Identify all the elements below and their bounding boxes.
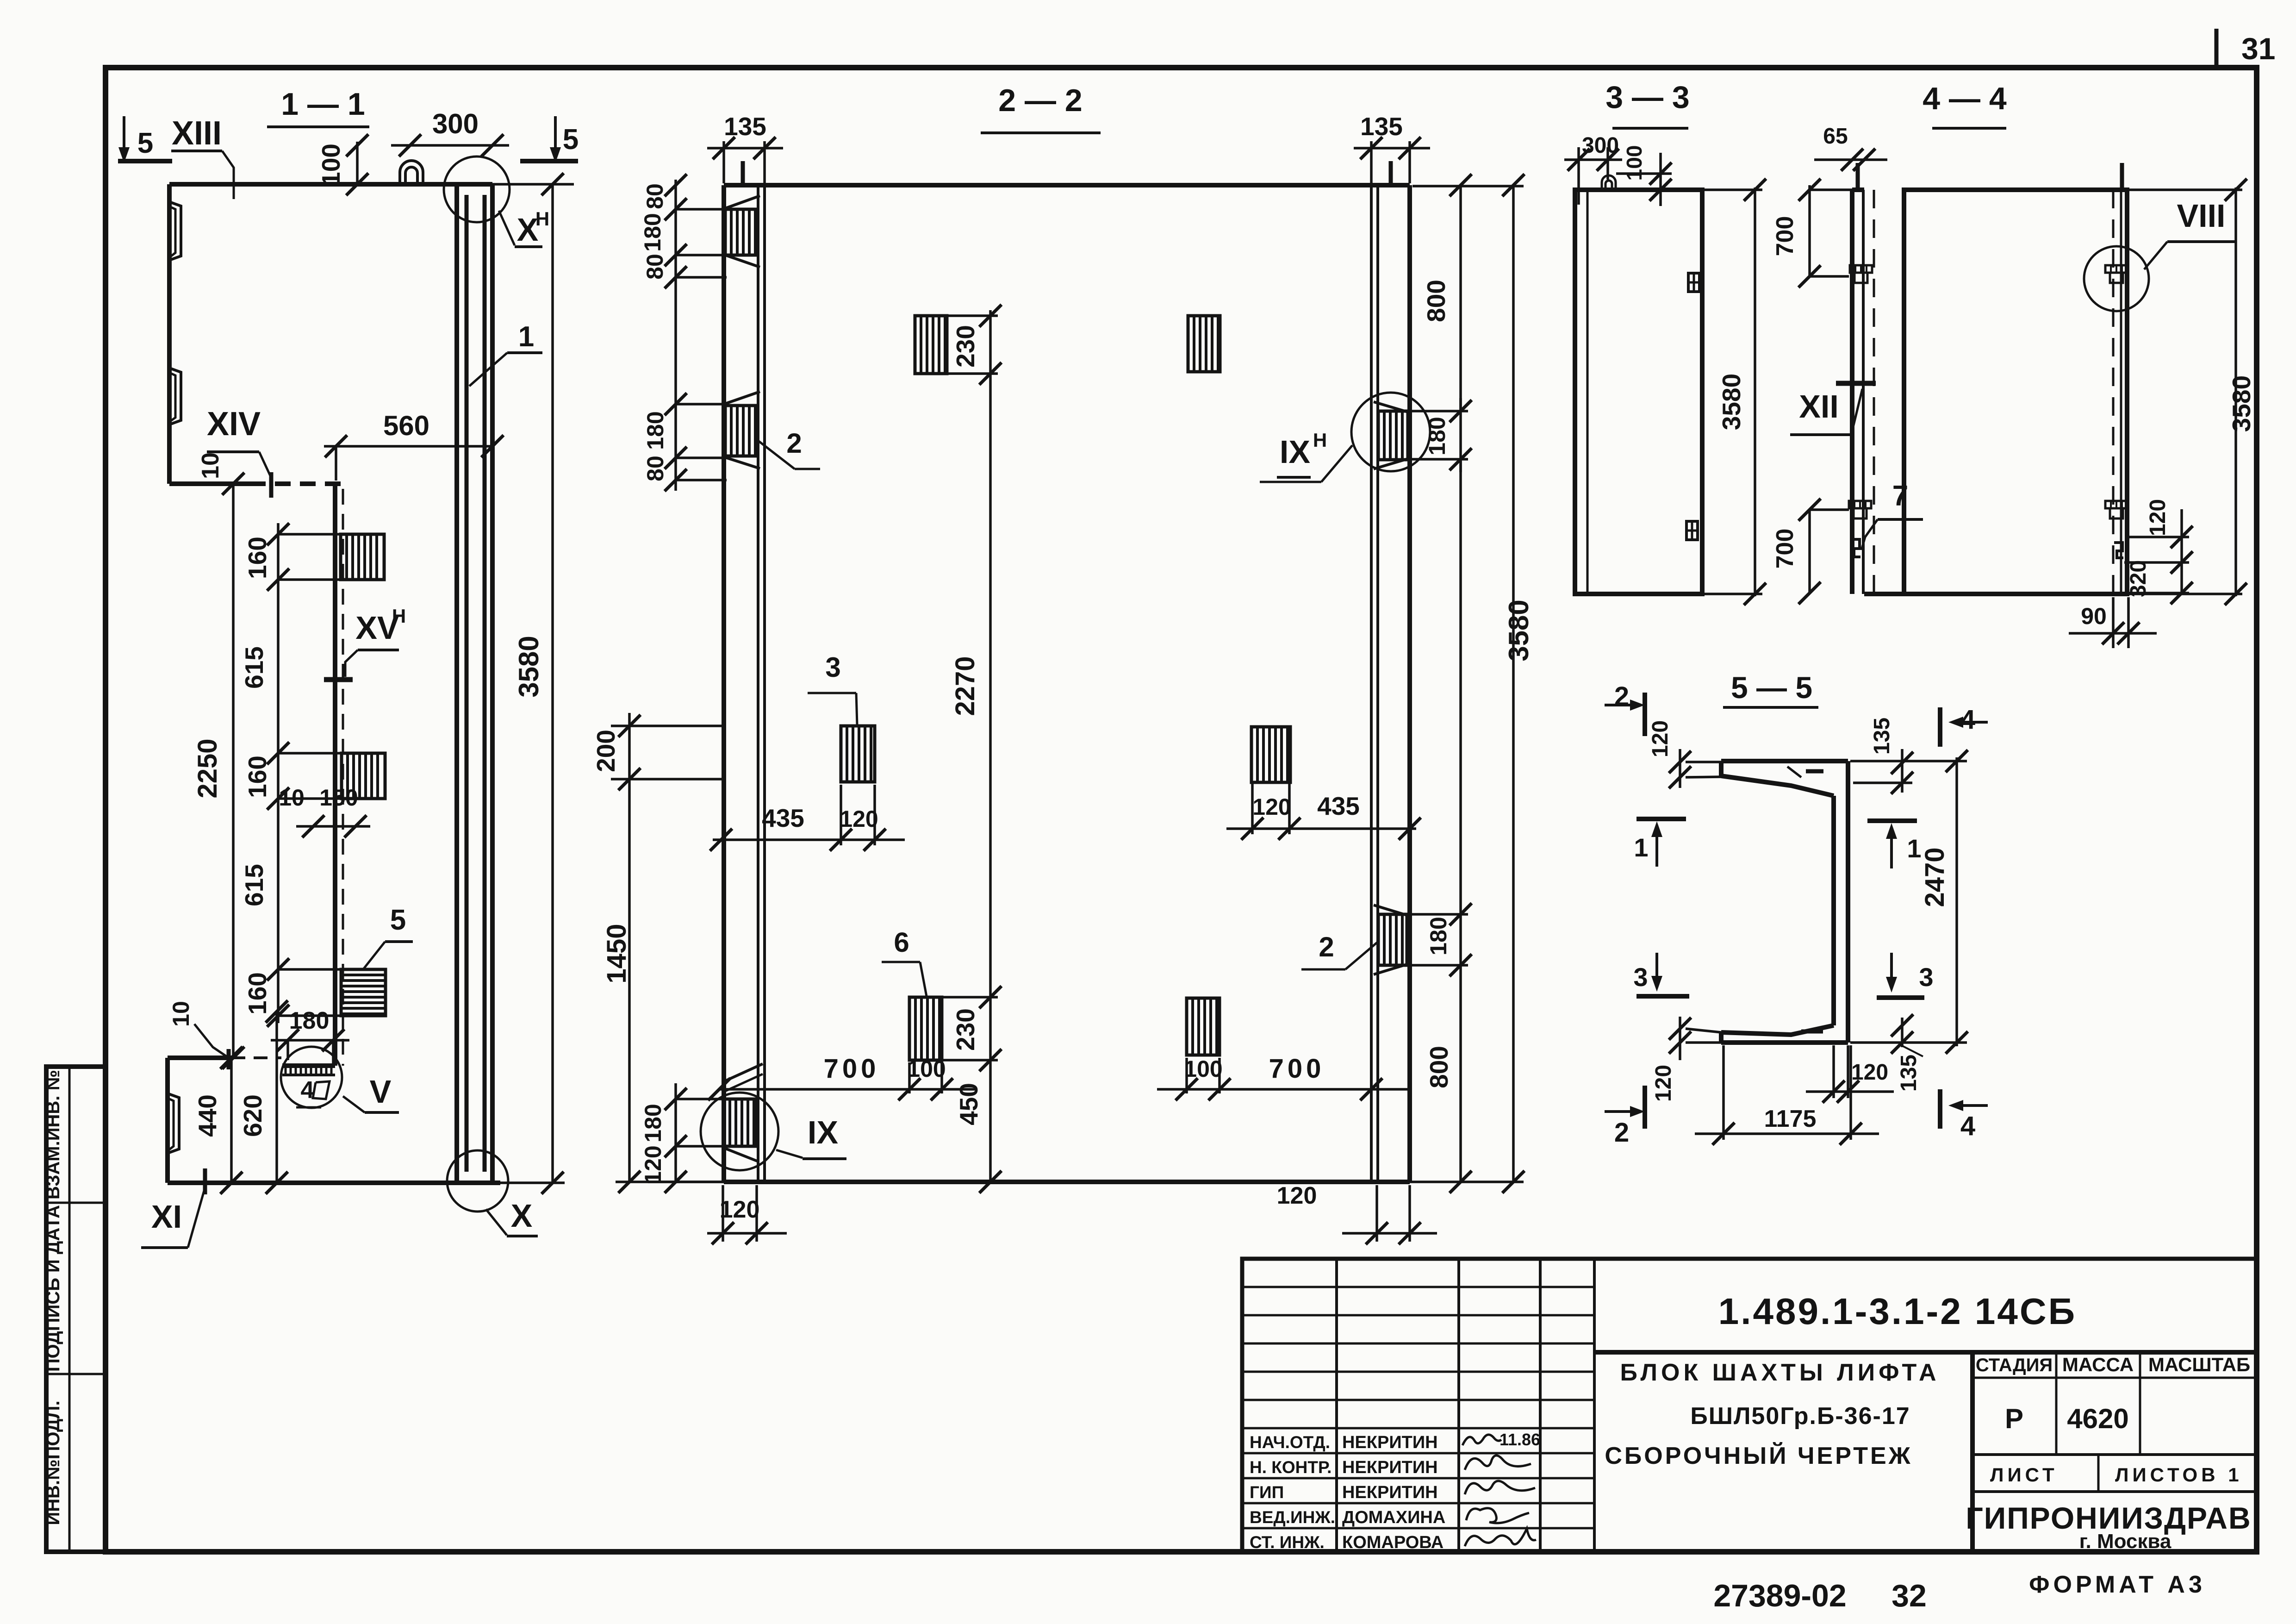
wedge above R2: [1374, 905, 1407, 915]
svg-text:120: 120: [1277, 1182, 1317, 1209]
section marker 1 right: [1867, 818, 1917, 823]
signature ved inzh: [1466, 1508, 1529, 1523]
narrow rib dashed axis: [1873, 190, 1875, 594]
svg-text:100: 100: [1622, 145, 1646, 181]
center chain dim line: [989, 310, 992, 1182]
svg-text:НЕКРИТИН: НЕКРИТИН: [1342, 1433, 1438, 1452]
svg-text:180: 180: [1425, 917, 1451, 955]
svg-text:120: 120: [640, 1145, 666, 1184]
dimension 800 bottom right: [1459, 965, 1462, 1182]
anchor block L1: [725, 209, 758, 255]
svg-text:135: 135: [724, 112, 766, 141]
dimension 3580 section 1-1: [551, 184, 554, 1183]
left stamp column box: [46, 1067, 106, 1552]
key block upper 1-1: [341, 534, 384, 580]
svg-text:Н: Н: [1313, 429, 1327, 451]
svg-text:65: 65: [1823, 124, 1848, 149]
narrow rib top cap: [1852, 187, 1864, 192]
svg-text:135: 135: [1870, 718, 1894, 755]
detail circle IX-n: [1351, 393, 1430, 471]
svg-text:560: 560: [383, 410, 429, 441]
svg-text:МАССА: МАССА: [2062, 1354, 2134, 1375]
section marker 1 left: [1636, 817, 1686, 821]
svg-text:БШЛ50Гр.Б-36-17: БШЛ50Гр.Б-36-17: [1690, 1403, 1910, 1430]
svg-text:Р: Р: [2005, 1403, 2023, 1434]
dimension 2250: [232, 484, 235, 1058]
dimension 435 120 left: [713, 838, 905, 841]
wall face vertical 1-1: [333, 484, 337, 1066]
dimension 100 top: [356, 142, 359, 184]
svg-text:ГИП: ГИП: [1250, 1483, 1284, 1502]
svg-text:Н: Н: [392, 605, 406, 627]
svg-text:32: 32: [1892, 1578, 1927, 1613]
title block doc number cell divider: [1594, 1350, 2257, 1355]
svg-text:300: 300: [432, 108, 479, 139]
detail circle VIII: [2084, 246, 2149, 311]
wedge above R1: [1374, 402, 1408, 412]
title block grid: [1242, 1259, 2257, 1552]
dimension 560: [324, 445, 492, 448]
svg-text:г. Москва: г. Москва: [2079, 1530, 2172, 1553]
svg-text:620: 620: [238, 1094, 267, 1137]
svg-text:Н. КОНТР.: Н. КОНТР.: [1250, 1458, 1332, 1477]
left stamp divider row 1: [46, 1202, 106, 1204]
svg-text:XI: XI: [151, 1199, 182, 1235]
ext lines left top chain: [676, 208, 727, 211]
svg-text:120: 120: [1252, 794, 1291, 820]
svg-text:МАСШТАБ: МАСШТАБ: [2148, 1354, 2250, 1375]
channel web inner face: [1831, 796, 1836, 1025]
svg-text:150: 150: [319, 785, 358, 811]
sheet number tick top right: [2215, 29, 2219, 69]
svg-text:СТ. ИНЖ.: СТ. ИНЖ.: [1250, 1533, 1325, 1552]
svg-text:2: 2: [786, 428, 802, 459]
narrow rib left face: [1850, 190, 1854, 594]
rebar stub 4-4 right: [2120, 163, 2124, 190]
svg-text:320: 320: [2126, 560, 2151, 597]
svg-text:10: 10: [197, 452, 224, 479]
mark dash bottom flange: [1801, 1030, 1823, 1034]
svg-text:180: 180: [640, 213, 666, 251]
channel top flange tip: [1719, 761, 1724, 776]
detail circle X bottom: [447, 1150, 508, 1212]
section 2-2 top edge: [724, 183, 1410, 187]
groove notch lower: [169, 368, 181, 425]
svg-text:800: 800: [1425, 1046, 1453, 1088]
section 2-2 bottom edge: [724, 1180, 1410, 1184]
bottom element left edge: [165, 1058, 170, 1183]
title block name column divider: [1970, 1352, 1975, 1552]
channel top flange top face: [1721, 759, 1848, 763]
svg-text:ВЕД.ИНЖ.: ВЕД.ИНЖ.: [1250, 1508, 1335, 1527]
channel bottom flange bottom face: [1721, 1040, 1848, 1045]
svg-text:435: 435: [1317, 792, 1360, 820]
dimension 100 700 right: [1157, 1088, 1410, 1091]
narrow rib right face: [1862, 190, 1865, 594]
svg-text:XIII: XIII: [172, 115, 222, 152]
chain dimension line 160-615: [277, 523, 280, 1023]
svg-text:БЛОК ШАХТЫ ЛИФТА: БЛОК ШАХТЫ ЛИФТА: [1620, 1359, 1940, 1386]
svg-text:160: 160: [243, 537, 272, 579]
groove notch upper: [169, 202, 181, 260]
svg-text:3580: 3580: [513, 636, 544, 697]
ext lines center chain: [947, 314, 998, 317]
signature n kontr: [1465, 1455, 1531, 1470]
svg-text:180: 180: [289, 1007, 330, 1034]
node 1-1 wall top edge: [169, 182, 492, 187]
svg-text:700: 700: [1772, 529, 1798, 569]
svg-text:120: 120: [1648, 720, 1673, 757]
svg-text:100: 100: [1184, 1056, 1222, 1082]
key block M5: [1187, 998, 1220, 1055]
wedge below L1: [725, 255, 760, 267]
clamp A 3-3: [1688, 273, 1699, 292]
svg-text:XII: XII: [1799, 388, 1839, 425]
svg-text:120: 120: [2146, 499, 2170, 536]
svg-text:615: 615: [240, 864, 268, 906]
dimension 120 320 right 4-4: [2180, 509, 2183, 593]
mark diagonal top flange: [1787, 767, 1801, 777]
dimension 3580 3-3: [1754, 187, 1756, 596]
rebar stub 4-4 left: [1856, 163, 1860, 190]
svg-text:4 — 4: 4 — 4: [1923, 81, 2007, 116]
groove notch bottom element: [168, 1093, 179, 1153]
svg-text:1: 1: [518, 321, 534, 353]
svg-text:V: V: [370, 1074, 392, 1110]
svg-text:80: 80: [642, 456, 668, 481]
node 1-1 flange bottom edge: [169, 481, 250, 486]
svg-text:230: 230: [951, 1008, 980, 1051]
svg-text:1: 1: [1634, 833, 1648, 862]
clamp VIII: [2105, 265, 2128, 273]
svg-text:2: 2: [1319, 931, 1334, 962]
section mark 5 left: [123, 116, 125, 156]
svg-text:5: 5: [563, 124, 579, 156]
svg-text:3580: 3580: [1503, 600, 1534, 661]
anchor block L3 bottom: [724, 1099, 757, 1146]
svg-text:2250: 2250: [193, 738, 223, 798]
dimension 3580 4-4: [2234, 187, 2237, 596]
mark dash top flange: [1806, 769, 1823, 774]
svg-text:435: 435: [762, 804, 804, 832]
dimension 180 R2: [1459, 459, 1462, 965]
wedge above L2: [725, 392, 760, 404]
svg-text:КОМАРОВА: КОМАРОВА: [1342, 1533, 1444, 1552]
panel 4-4 right inner line: [2120, 190, 2122, 594]
signature nach otd: [1462, 1435, 1501, 1445]
rebar stub right: [1389, 161, 1393, 185]
svg-text:ДОМАХИНА: ДОМАХИНА: [1342, 1508, 1445, 1527]
left stamp divider row 2: [46, 1373, 106, 1375]
left stamp column divider vertical: [68, 1067, 71, 1552]
wedge above L3: [722, 1064, 763, 1082]
right wall inner face double 2-2: [1370, 185, 1373, 1182]
wedge below L2: [725, 457, 760, 468]
svg-text:90: 90: [2081, 603, 2107, 629]
svg-text:200: 200: [591, 730, 620, 772]
svg-text:80: 80: [642, 183, 668, 209]
section 1-1 bottom edge: [168, 1181, 500, 1185]
key block M2: [1188, 316, 1220, 372]
clamp lower right 4-4: [2105, 501, 2128, 508]
ext lines left bottom chain: [676, 1098, 722, 1100]
left wall outer face 2-2: [722, 185, 726, 1182]
svg-text:230: 230: [951, 325, 980, 368]
section mark 5 right: [554, 116, 557, 156]
wall hidden face dashed 1-1: [342, 489, 344, 1066]
svg-text:4: 4: [1960, 1111, 1975, 1141]
svg-text:ВЗАМ.ИНВ. №: ВЗАМ.ИНВ. №: [43, 1070, 63, 1199]
node 1-1 left flange left edge: [167, 184, 172, 484]
key block M1: [915, 316, 947, 374]
svg-text:НАЧ.ОТД.: НАЧ.ОТД.: [1250, 1433, 1330, 1452]
svg-text:2: 2: [1614, 681, 1629, 712]
svg-text:2: 2: [1614, 1118, 1629, 1148]
detail circle X-n top: [444, 156, 510, 222]
title block stadia massa masshtab header: [1972, 1377, 2257, 1379]
svg-text:2270: 2270: [950, 656, 980, 716]
dimension 800 top right: [1459, 185, 1462, 411]
right wall outer face 2-2: [1407, 185, 1412, 1182]
svg-text:IX: IX: [1280, 434, 1310, 470]
svg-text:X: X: [511, 1198, 533, 1234]
dimension 2470 5-5: [1955, 757, 1958, 1046]
svg-text:10: 10: [168, 1001, 194, 1027]
svg-text:НЕКРИТИН: НЕКРИТИН: [1342, 1458, 1438, 1477]
svg-text:180: 180: [1424, 417, 1450, 455]
chain extension lines upper block: [278, 533, 345, 536]
svg-text:615: 615: [240, 646, 268, 689]
svg-text:2 — 2: 2 — 2: [998, 83, 1082, 118]
svg-text:160: 160: [243, 972, 272, 1015]
svg-text:120: 120: [720, 1196, 760, 1223]
svg-text:27389-02: 27389-02: [1713, 1578, 1846, 1613]
bottom edge between pieces: [1864, 592, 1904, 596]
dimension 1450 left: [628, 779, 631, 1182]
svg-text:120: 120: [1651, 1065, 1676, 1102]
svg-text:160: 160: [243, 756, 272, 798]
chain extension lines item5 block: [278, 968, 346, 971]
bottom element top edge: [168, 1056, 231, 1060]
svg-text:XIV: XIV: [207, 406, 261, 443]
wedge trapezoid detail 4: [313, 1081, 330, 1099]
channel web outer face: [1846, 761, 1850, 1043]
dimension 700 100 left: [719, 1088, 977, 1091]
channel top flange inner face: [1721, 776, 1834, 796]
anchor block R2: [1378, 914, 1407, 965]
svg-text:180: 180: [640, 1104, 666, 1142]
svg-text:11.86: 11.86: [1500, 1430, 1540, 1449]
dimension 700 top 4-4: [1808, 185, 1811, 276]
clamp2 narrow rib: [1849, 501, 1871, 508]
hook item 7: [1851, 539, 1860, 557]
svg-text:3: 3: [825, 652, 840, 683]
svg-text:10: 10: [279, 785, 305, 811]
svg-text:1.489.1-3.1-2 14СБ: 1.489.1-3.1-2 14СБ: [1718, 1291, 2077, 1332]
dimension 620: [275, 1012, 278, 1183]
svg-text:ФОРМАТ А3: ФОРМАТ А3: [2029, 1571, 2206, 1598]
dimension 200 left: [628, 713, 631, 779]
svg-text:1175: 1175: [1764, 1106, 1817, 1132]
svg-text:ЛИСТ: ЛИСТ: [1990, 1464, 2058, 1486]
section 3-3 left inner line: [1587, 190, 1589, 594]
rebar line right 1-1: [483, 195, 487, 1172]
anchor comb detail V: [282, 1063, 335, 1068]
clamp1 narrow rib: [1850, 265, 1872, 273]
section 3-3 panel outline: [1575, 190, 1702, 594]
svg-text:440: 440: [193, 1094, 222, 1137]
chain extension lines middle block: [278, 752, 346, 755]
svg-text:4620: 4620: [2067, 1403, 2128, 1434]
svg-text:100: 100: [907, 1056, 946, 1082]
anchor block L2: [725, 406, 758, 456]
clamp B 3-3: [1686, 521, 1698, 540]
dimension 300 top: [391, 144, 509, 147]
wedge below L3: [722, 1147, 757, 1161]
svg-text:100: 100: [317, 144, 345, 186]
svg-text:СТАДИЯ: СТАДИЯ: [1976, 1355, 2053, 1375]
svg-text:5: 5: [137, 127, 153, 159]
svg-text:ПОДПИСЬ И ДАТА: ПОДПИСЬ И ДАТА: [43, 1205, 63, 1372]
dimension 440: [230, 1058, 233, 1183]
svg-text:1450: 1450: [602, 924, 632, 983]
key block M4 item6: [909, 997, 942, 1060]
key block M3 item3: [841, 726, 875, 782]
svg-text:80: 80: [642, 254, 668, 280]
svg-text:5: 5: [390, 904, 406, 936]
wall outer face 1-1: [490, 184, 495, 1183]
title block org row line: [1972, 1490, 2257, 1493]
svg-text:3580: 3580: [2227, 375, 2256, 432]
dimension line 800 dashes top: [1412, 185, 1524, 187]
svg-text:120: 120: [840, 806, 878, 832]
left wall inner face double 2-2: [757, 185, 759, 1182]
svg-text:СБОРОЧНЫЙ ЧЕРТЕЖ: СБОРОЧНЫЙ ЧЕРТЕЖ: [1605, 1442, 1912, 1469]
svg-text:5 — 5: 5 — 5: [1731, 670, 1812, 705]
svg-text:700: 700: [824, 1054, 880, 1084]
svg-text:4: 4: [301, 1077, 314, 1104]
svg-text:3: 3: [1919, 962, 1933, 992]
svg-text:Н: Н: [535, 208, 549, 230]
dimension 3580 section 2-2: [1512, 185, 1515, 1182]
panel 4-4 outline: [1904, 190, 2127, 594]
panel 4-4 dashed line: [2112, 190, 2115, 594]
dimension 120 435 right: [1226, 827, 1416, 830]
svg-text:IX: IX: [808, 1114, 838, 1150]
lifting loop 1-1: [400, 161, 423, 184]
svg-text:1: 1: [1907, 834, 1921, 863]
rebar stub left: [741, 161, 745, 185]
rebar line left 1-1: [465, 195, 469, 1172]
svg-text:31: 31: [2241, 31, 2275, 66]
anchor block R1: [1378, 411, 1408, 460]
detail circle IX: [701, 1093, 778, 1170]
svg-text:НЕКРИТИН: НЕКРИТИН: [1342, 1483, 1438, 1502]
svg-text:6: 6: [894, 927, 909, 958]
dimension 180 R1: [1459, 398, 1462, 472]
svg-text:180: 180: [642, 411, 668, 450]
key block M3r: [1251, 727, 1290, 782]
left top chain dims: [674, 180, 677, 491]
svg-text:VIII: VIII: [2177, 198, 2225, 234]
svg-text:3: 3: [1633, 962, 1648, 992]
left bottom chain dims: [674, 1083, 677, 1182]
key block item5 1-1: [341, 969, 386, 1016]
signature gip: [1465, 1481, 1535, 1494]
detail circle V: [281, 1047, 342, 1108]
key block middle 1-1: [342, 753, 385, 799]
wedge above L1: [725, 196, 760, 208]
dimension 700 bottom 4-4: [1808, 510, 1811, 593]
svg-text:2470: 2470: [1920, 847, 1950, 907]
svg-text:ЛИСТОВ 1: ЛИСТОВ 1: [2115, 1464, 2243, 1486]
lifting loop 3-3: [1602, 175, 1616, 190]
wall inner face 1-1: [454, 184, 459, 1183]
svg-text:3 — 3: 3 — 3: [1605, 80, 1689, 115]
svg-text:ИНВ.№ПОДЛ.: ИНВ.№ПОДЛ.: [43, 1400, 63, 1525]
channel bottom flange inner face: [1721, 1025, 1834, 1035]
title block list row line: [1972, 1453, 2257, 1456]
svg-text:700: 700: [1772, 216, 1798, 256]
channel bottom flange tip: [1719, 1032, 1724, 1043]
signature st inzh: [1465, 1529, 1536, 1546]
svg-text:700: 700: [1269, 1054, 1325, 1084]
svg-text:3580: 3580: [1717, 374, 1746, 430]
title block list divider: [2097, 1455, 2100, 1492]
svg-text:800: 800: [1422, 280, 1450, 322]
svg-text:135: 135: [1897, 1055, 1921, 1092]
wedge below R1: [1374, 459, 1408, 469]
wedge below R2: [1374, 964, 1407, 974]
hook lower right 4-4: [2114, 543, 2123, 558]
svg-text:1 — 1: 1 — 1: [281, 87, 365, 122]
